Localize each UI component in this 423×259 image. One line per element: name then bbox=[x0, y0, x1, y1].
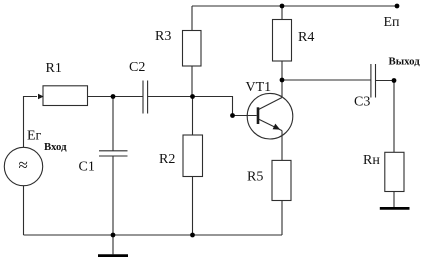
svg-text:Выход: Выход bbox=[389, 55, 421, 67]
wire emitter vertical to R5 bbox=[281, 131, 283, 161]
wire R1 to C2 bbox=[88, 96, 143, 98]
capacitor C3 bbox=[371, 64, 376, 98]
wire source bottom stem bbox=[23, 186, 25, 235]
junction node R2 ground bbox=[190, 233, 195, 238]
svg-text:≈: ≈ bbox=[19, 156, 28, 175]
resistor R1 bbox=[43, 86, 88, 106]
node Еп terminal bbox=[395, 4, 400, 9]
svg-text:Вход: Вход bbox=[44, 141, 67, 153]
resistor R5 bbox=[272, 160, 291, 200]
arrowhead into R1 bbox=[38, 94, 44, 100]
wire bottom ground bus bbox=[24, 234, 283, 236]
svg-text:C3: C3 bbox=[354, 95, 370, 110]
wire R5 bottom stem bbox=[281, 201, 283, 236]
junction node collector output bbox=[280, 78, 285, 83]
svg-text:R1: R1 bbox=[46, 61, 62, 76]
svg-text:C1: C1 bbox=[79, 160, 95, 175]
junction node base jog bbox=[230, 113, 235, 118]
junction node R3/R2/C2 bbox=[190, 94, 195, 99]
wire R3 top stem bbox=[191, 6, 193, 31]
wire collector output line bbox=[282, 79, 371, 81]
svg-text:Ег: Ег bbox=[27, 129, 42, 144]
node output terminal bbox=[392, 78, 397, 83]
ground symbol left bar bbox=[98, 254, 128, 257]
wire emitter diagonal bbox=[258, 119, 282, 131]
wire C2 to base jog bbox=[148, 97, 257, 116]
ground symbol right bar bbox=[380, 207, 410, 210]
wire collector diagonal bbox=[258, 98, 282, 110]
junction node R1/C1 bbox=[111, 94, 116, 99]
source Eг circle bbox=[4, 147, 42, 185]
svg-text:Еп: Еп bbox=[384, 15, 401, 30]
capacitor C1 bbox=[99, 151, 128, 156]
wire R4 top stem bbox=[281, 6, 283, 20]
junction node R4 top bbox=[280, 4, 285, 9]
wire R2 top stem bbox=[192, 97, 194, 136]
wire top supply rail bbox=[192, 5, 397, 7]
svg-text:R4: R4 bbox=[298, 30, 314, 45]
wire Rн bottom stub bbox=[393, 192, 395, 208]
wire C1 bottom stem bbox=[112, 156, 114, 235]
transistor VT1 circle bbox=[247, 93, 293, 139]
emitter arrowhead bbox=[273, 124, 281, 130]
wire R2 bottom stem bbox=[192, 177, 194, 236]
capacitor C2 bbox=[143, 81, 148, 114]
resistor Rн bbox=[385, 152, 404, 191]
wire output node to load bbox=[393, 81, 395, 153]
svg-text:R2: R2 bbox=[159, 152, 175, 167]
wire ground stub left bbox=[112, 235, 114, 254]
wire input branch from source to R1 bbox=[24, 97, 38, 148]
svg-text:C2: C2 bbox=[129, 60, 145, 75]
wire R3 bottom stem bbox=[191, 66, 193, 97]
junction node C1 ground bbox=[111, 233, 116, 238]
svg-text:R3: R3 bbox=[155, 29, 171, 44]
svg-text:VT1: VT1 bbox=[246, 80, 272, 95]
wire C3 to output node bbox=[376, 80, 395, 82]
wire C1 top stem bbox=[112, 97, 114, 151]
transistor VT1 base bar bbox=[257, 107, 260, 124]
resistor R2 bbox=[183, 135, 203, 177]
svg-text:R5: R5 bbox=[247, 170, 263, 185]
wire R4 collector stem bbox=[281, 61, 283, 98]
resistor R4 bbox=[273, 20, 292, 62]
svg-text:Rн: Rн bbox=[363, 153, 380, 168]
resistor R3 bbox=[183, 31, 202, 67]
